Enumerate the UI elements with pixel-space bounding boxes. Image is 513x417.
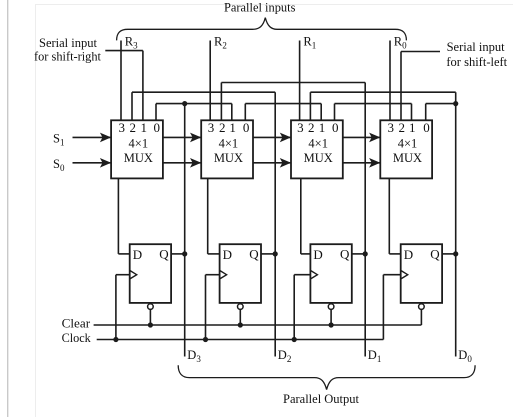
wire node Q0/D0 vertical <box>455 92 457 356</box>
wire clock to FF3 <box>294 274 310 276</box>
svg-text:4×1: 4×1 <box>129 137 149 151</box>
wire S0 MUX2 to MUX3 <box>253 162 291 164</box>
wire S1 stub <box>73 136 112 138</box>
svg-text:MUX: MUX <box>214 151 243 165</box>
wire serial-right down to MUX1 pin1 <box>142 51 144 121</box>
flip-flop FF4 (D flip-flop) <box>401 244 442 303</box>
svg-text:3: 3 <box>208 120 215 135</box>
frame left page border <box>7 0 9 417</box>
svg-text:0: 0 <box>332 120 339 135</box>
clear bubble FF4 <box>419 304 425 310</box>
svg-text:2: 2 <box>219 120 226 135</box>
svg-text:2: 2 <box>130 120 137 135</box>
mux U2 (4x1 MUX) <box>201 120 253 178</box>
junction Q0 output node <box>453 251 458 256</box>
wire R2 vertical <box>209 41 211 121</box>
svg-text:1: 1 <box>140 120 147 135</box>
wire FF4 Q output <box>442 253 456 255</box>
wire MUX2 pin0 to MUX3 pin1 (Q2 net) <box>245 103 321 105</box>
svg-text:R2: R2 <box>214 34 227 50</box>
svg-text:Parallel inputs: Parallel inputs <box>224 1 296 15</box>
wire node Q0 to MUX3 pin2 (shift-left) <box>310 91 455 93</box>
svg-text:2: 2 <box>399 120 406 135</box>
wire S0 MUX1 to MUX2 <box>163 162 201 164</box>
junction Clear FF2 <box>238 322 243 327</box>
wire node Q1/D1 vertical <box>364 83 366 357</box>
wire MUX2 output to FF2 D <box>207 178 209 254</box>
svg-text:1: 1 <box>409 120 416 135</box>
svg-text:D2: D2 <box>278 348 292 364</box>
wire MUX1 pin0 to MUX2 pin1 (Q3 net) <box>156 103 232 105</box>
svg-text:0: 0 <box>154 120 161 135</box>
wire MUX1 output to FF1 D <box>117 178 119 254</box>
junction Clock FF3 <box>292 337 297 342</box>
svg-text:MUX: MUX <box>304 151 333 165</box>
svg-text:Q: Q <box>340 247 350 262</box>
wire S1 MUX3 to MUX4 <box>343 136 381 138</box>
svg-text:1: 1 <box>319 120 326 135</box>
svg-text:MUX: MUX <box>124 151 153 165</box>
svg-text:D: D <box>223 247 232 262</box>
svg-text:for shift-right: for shift-right <box>34 49 102 63</box>
wire node Q3/D3 vertical <box>184 104 186 357</box>
svg-text:Q: Q <box>159 247 169 262</box>
svg-text:Q: Q <box>249 247 259 262</box>
wire serial-left down to MUX4 pin2 <box>400 52 402 121</box>
wire S1 MUX1 to MUX2 <box>163 136 201 138</box>
svg-text:MUX: MUX <box>393 151 422 165</box>
svg-text:D: D <box>313 247 322 262</box>
wire serial-left horizontal <box>401 51 440 53</box>
svg-text:1: 1 <box>229 120 236 135</box>
wire node Q1 to MUX2 pin2 (shift-left) <box>221 82 365 84</box>
svg-text:for shift-left: for shift-left <box>446 55 507 69</box>
brace parallel output <box>178 365 475 389</box>
junction Q2 output node <box>273 251 278 256</box>
svg-text:D: D <box>404 247 413 262</box>
wire node Q2/D2 vertical <box>274 92 276 356</box>
svg-text:3: 3 <box>297 120 304 135</box>
svg-text:4×1: 4×1 <box>308 137 328 151</box>
flip-flop FF2 (D flip-flop) <box>220 244 261 303</box>
flip-flop FF1 (D flip-flop) <box>130 244 171 303</box>
junction node Q3 <box>182 101 187 106</box>
wire Clock bus <box>97 339 384 341</box>
wire R1 vertical <box>299 41 301 121</box>
wire clock to FF4 <box>383 274 400 276</box>
svg-text:3: 3 <box>388 120 395 135</box>
junction Q1 output node <box>363 251 368 256</box>
mux U3 (4x1 MUX) <box>291 120 343 178</box>
wire serial-right horizontal <box>105 50 143 52</box>
clear bubble FF3 <box>328 304 334 310</box>
wire MUX4 output to FF4 D <box>388 178 390 254</box>
clear bubble FF2 <box>238 304 244 310</box>
wire MUX3 output to FF3 D <box>300 178 302 254</box>
mux U1 (4x1 MUX) <box>111 120 163 178</box>
wire R3 vertical <box>120 41 122 121</box>
wire node Q2 to MUX1 pin2 (shift-left) <box>132 91 275 93</box>
svg-text:R3: R3 <box>125 34 138 50</box>
junction Q3 output node <box>182 251 187 256</box>
wire R0 vertical <box>389 41 391 121</box>
mux U4 (4x1 MUX) <box>380 120 432 178</box>
svg-text:S1: S1 <box>53 131 64 147</box>
junction node Q0 <box>453 101 458 106</box>
wire clock to FF2 <box>206 274 220 276</box>
junction Clear FF3 <box>329 322 334 327</box>
svg-text:R1: R1 <box>303 34 316 50</box>
svg-text:D0: D0 <box>458 348 472 364</box>
svg-text:Serial input: Serial input <box>447 40 506 54</box>
svg-text:4×1: 4×1 <box>219 137 239 151</box>
svg-text:Clear: Clear <box>62 317 91 331</box>
wire S0 stub <box>73 162 112 164</box>
wire FF2 Q output <box>261 253 275 255</box>
wire Clear bus <box>94 324 422 326</box>
wire S0 MUX3 to MUX4 <box>343 162 381 164</box>
svg-text:Clock: Clock <box>62 331 92 345</box>
svg-text:D: D <box>133 247 142 262</box>
svg-text:3: 3 <box>119 120 126 135</box>
svg-text:D3: D3 <box>187 348 201 364</box>
wire MUX3 pin0 to MUX4 pin1 (Q1 net) <box>335 103 412 105</box>
wire S1 MUX2 to MUX3 <box>253 136 291 138</box>
svg-text:Serial input: Serial input <box>39 36 98 50</box>
brace parallel inputs <box>117 18 407 41</box>
flip-flop FF3 (D flip-flop) <box>310 244 351 303</box>
wire FF1 Q output <box>171 253 185 255</box>
svg-text:Parallel Output: Parallel Output <box>283 392 360 406</box>
svg-text:S0: S0 <box>53 157 65 173</box>
svg-text:0: 0 <box>423 120 430 135</box>
wire FF3 Q output <box>352 253 365 255</box>
svg-text:D1: D1 <box>368 348 382 364</box>
svg-text:Q: Q <box>430 247 440 262</box>
junction Clock FF2 <box>203 337 208 342</box>
svg-text:R0: R0 <box>394 34 407 50</box>
svg-text:2: 2 <box>308 120 315 135</box>
svg-text:0: 0 <box>243 120 250 135</box>
junction Clock FF1 <box>113 337 118 342</box>
wire MUX4 pin0 to Q0 vertical <box>426 103 456 105</box>
wire clock to FF1 <box>116 274 130 276</box>
junction Clear FF1 <box>148 322 153 327</box>
svg-text:4×1: 4×1 <box>398 137 418 151</box>
clear bubble FF1 <box>148 304 154 310</box>
